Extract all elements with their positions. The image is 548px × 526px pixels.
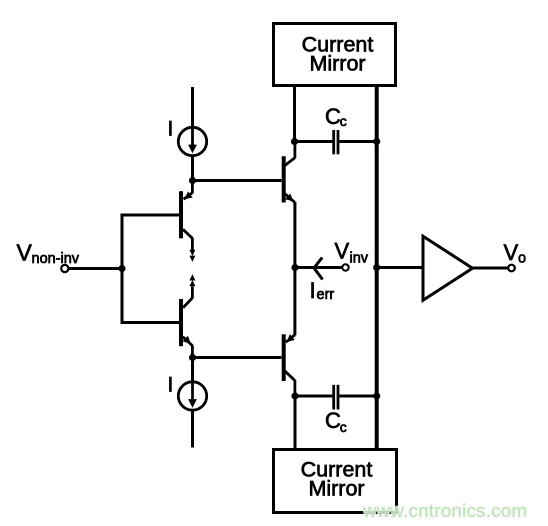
node: Q2 emitter / Q4 base junction — [189, 354, 196, 361]
wire: Q2 emitter node to Q4 base — [193, 356, 282, 359]
svg-text:I: I — [310, 278, 316, 303]
node: Cc top / bus junction — [373, 138, 380, 145]
current source I2 (bottom) — [178, 382, 206, 410]
wire: Q2 base — [122, 321, 180, 324]
label V_o — [504, 240, 527, 267]
node: Q1 emitter / Q3 base junction — [189, 177, 196, 184]
wire: Q1 emitter node to Q3 base — [193, 179, 282, 182]
transistor Q4 (PNP, bottom right) — [284, 334, 295, 396]
op-amp buffer A1 (output buffer triangle) — [423, 236, 473, 300]
svg-text:non-inv: non-inv — [32, 251, 80, 267]
wire: Q3 collector node to Cc top left plate — [293, 140, 332, 143]
wire: Q2 emitter node down to bottom current source — [191, 358, 194, 383]
node: Q3 collector / top mirror / Cc junction — [291, 138, 298, 145]
terminal V_o — [508, 265, 515, 272]
terminal V_inv — [342, 264, 348, 270]
svg-text:Mirror: Mirror — [308, 477, 364, 501]
svg-text:C: C — [325, 104, 341, 129]
svg-text:o: o — [518, 251, 526, 267]
wire: top mirror left lead down to Q3 collector node — [293, 85, 296, 142]
label V_non-inv — [17, 240, 80, 268]
node: Cc bottom / bus junction — [373, 392, 380, 399]
transistor Q3 (NPN, top right) — [284, 142, 295, 203]
current direction arrows: Q1 collector current (double arrowhead down) — [189, 250, 195, 262]
node: input base bus junction — [118, 265, 125, 272]
wire: Q4 collector node down to bottom mirror — [294, 396, 297, 449]
wire: V_non-inv terminal to base node — [68, 267, 122, 270]
svg-text:Mirror: Mirror — [309, 52, 365, 76]
wire: current source to Q1 emitter node — [191, 156, 194, 181]
svg-text:V: V — [504, 240, 519, 265]
capacitor C1 (Cc top) — [334, 130, 338, 154]
wire: top supply lead into current source — [191, 87, 194, 128]
node: Q4 collector / Cc bottom junction — [291, 392, 298, 399]
svg-text:www.cntronics.com: www.cntronics.com — [362, 500, 527, 521]
svg-text:C: C — [325, 408, 341, 433]
wire: Q4 collector node to bottom Cc left plate — [295, 395, 332, 398]
svg-text:V: V — [335, 239, 350, 264]
svg-text:c: c — [340, 419, 347, 435]
wire: Q3 emitter down to inverting node — [293, 202, 296, 268]
current direction arrows: Q2 collector current (double arrowhead up) — [189, 274, 195, 286]
wire: inverting node to V_inv terminal — [295, 266, 342, 269]
svg-text:inv: inv — [350, 251, 369, 267]
wire: Q4 emitter up to inverting node — [293, 268, 296, 336]
label V_inv — [335, 239, 369, 267]
wire: Cc bottom right plate to bus — [339, 395, 376, 398]
wire: Q1 base — [122, 214, 180, 217]
node: inverting input (Q3/Q4 emitter junction) — [291, 264, 298, 271]
label Cc (bottom) — [325, 408, 347, 435]
wire: right-hand gain-node bus (top mirror to bottom mirror) — [375, 85, 379, 449]
node: bus / buffer input junction — [373, 264, 380, 271]
current mirror box U2 (bottom) — [274, 450, 397, 513]
label Cc (top) — [325, 104, 347, 129]
input terminal V_non-inv — [61, 265, 68, 272]
wire: buffer output — [473, 267, 509, 270]
current source I1 (top) — [178, 127, 206, 155]
transistor Q1 (PNP, top input) — [181, 181, 193, 251]
transistor Q2 (NPN, bottom input) — [181, 287, 192, 358]
wire: Cc top right plate to bus — [339, 140, 376, 143]
wire: bus to buffer input — [377, 266, 424, 269]
svg-text:I: I — [168, 118, 174, 141]
svg-text:I: I — [168, 374, 174, 397]
current arrow I_err (open arrowhead pointing left) — [314, 258, 323, 280]
label I_err — [310, 278, 335, 303]
svg-text:c: c — [340, 113, 347, 129]
capacitor C2 (Cc bottom) — [334, 385, 338, 410]
svg-text:V: V — [17, 240, 33, 266]
svg-text:err: err — [317, 287, 335, 303]
current mirror box U1 (top) — [274, 24, 396, 86]
wire: base bus vertical (Q1 base to Q2 base) — [121, 214, 124, 325]
wire: bottom supply lead — [191, 410, 194, 447]
